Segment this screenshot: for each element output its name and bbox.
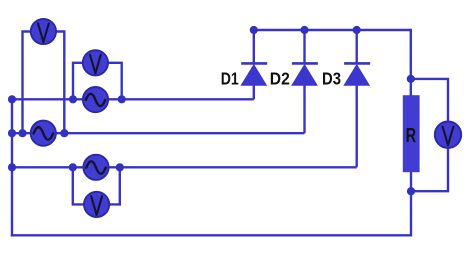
junction node: load bottom / V4 tap	[407, 187, 415, 195]
wire: load bottom riser	[410, 172, 412, 237]
diode D1	[241, 63, 267, 85]
svg-text:D3: D3	[322, 69, 341, 89]
voltmeter V1 (across source S2)	[31, 19, 56, 44]
wire: voltmeter V2 parallel loop across source S1	[73, 63, 122, 100]
junction node: V3 right tap on phase-3 line	[116, 163, 124, 171]
wire: D1 cathode riser	[253, 30, 255, 64]
wire: phase-2 line from neutral bus through source S2 to D2 anode	[12, 132, 305, 134]
svg-text:D1: D1	[221, 69, 239, 89]
wire: right drop from top bus to resistor top	[410, 29, 412, 96]
junction node: neutral bus to phase-2 line	[8, 129, 16, 137]
ac source S2 (phase 2)	[31, 121, 56, 146]
junction node: load top / V4 tap	[407, 75, 415, 83]
wire: D2 cathode riser	[303, 30, 305, 64]
wire: voltmeter V1 parallel loop across source S2	[23, 32, 65, 134]
junction node: neutral bus to phase-1 line	[8, 95, 16, 103]
diode D2	[292, 63, 318, 85]
wire: bottom return bus	[11, 234, 411, 236]
junction node: V1 right tap on phase-2 line	[60, 129, 68, 137]
wire: top cathode bus	[254, 29, 411, 31]
junction node: V2 right tap on phase-1 line	[118, 95, 126, 103]
junction node: V3 left tap on phase-3 line	[69, 163, 77, 171]
resistor R (load)	[403, 95, 420, 172]
junction node: D2 cathode on top bus	[300, 26, 308, 34]
wire: voltmeter V4 parallel loop across load R	[411, 79, 448, 191]
wire: voltmeter V3 parallel loop across source S3	[73, 167, 120, 204]
wire: D3 cathode riser	[356, 30, 358, 64]
ac source S3 (phase 3)	[83, 155, 108, 180]
wire: D1 anode drop	[253, 84, 255, 99]
junction node: V1 left tap on phase-2 line	[18, 129, 26, 137]
junction node: D3 cathode on top bus	[353, 26, 361, 34]
junction node: D1 cathode on top bus	[250, 26, 258, 34]
svg-text:R: R	[406, 124, 417, 147]
wire: phase-1 line from neutral bus through source S1 to D1 anode	[12, 98, 254, 100]
diode D3	[344, 63, 370, 85]
wire: left neutral bus	[11, 99, 13, 236]
voltmeter V4 (across load R)	[435, 122, 461, 148]
wire: phase-3 line from neutral bus through source S3 to D3 anode	[12, 166, 357, 168]
voltmeter V2 (across source S1)	[83, 50, 108, 75]
wire: D3 anode drop	[356, 84, 358, 167]
svg-text:D2: D2	[270, 69, 290, 89]
junction node: V2 left tap on phase-1 line	[69, 95, 77, 103]
wire: D2 anode drop	[303, 84, 305, 133]
junction node: neutral bus to phase-3 line	[8, 163, 16, 171]
ac source S1 (phase 1)	[83, 87, 108, 112]
voltmeter V3 (across source S3)	[84, 192, 109, 217]
